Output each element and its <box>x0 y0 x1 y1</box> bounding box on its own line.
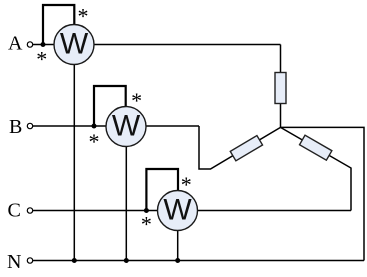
wire star point to N <box>281 127 365 260</box>
svg-text:B: B <box>9 116 22 138</box>
wattmeter W3 <box>158 191 198 231</box>
svg-text:*: * <box>141 212 152 237</box>
wire phase A down to load <box>280 45 282 128</box>
node dot junction A loop <box>41 42 46 47</box>
resistor phase C <box>300 135 332 160</box>
node dot junction C loop <box>144 208 149 213</box>
svg-text:A: A <box>8 32 23 54</box>
terminal B <box>27 123 32 128</box>
terminal C <box>27 208 32 213</box>
loop W3 current coil <box>146 169 178 211</box>
wire phase C to load <box>281 127 352 210</box>
wire line N <box>33 260 364 262</box>
svg-text:*: * <box>78 4 89 29</box>
svg-text:*: * <box>89 129 100 154</box>
wire line A <box>33 44 281 46</box>
wire phase B to load <box>199 126 281 169</box>
terminal N <box>27 258 32 263</box>
wire W3 voltage coil to N <box>177 211 179 261</box>
wire W1 voltage coil to N <box>73 45 75 261</box>
wire line C <box>33 210 351 212</box>
svg-text:*: * <box>131 88 142 113</box>
svg-text:*: * <box>181 172 192 197</box>
svg-text:*: * <box>36 46 47 71</box>
wire W2 voltage coil to N <box>125 126 127 261</box>
svg-text:W: W <box>112 110 141 143</box>
wattmeter W1 <box>54 25 94 65</box>
node dot N junction 2 <box>124 258 129 263</box>
svg-text:W: W <box>163 194 192 227</box>
wattmeter W2 <box>106 107 146 147</box>
resistor phase B <box>230 136 262 161</box>
wire line B <box>33 125 199 127</box>
loop W2 current coil <box>94 86 126 126</box>
svg-text:N: N <box>7 251 21 273</box>
loop W1 current coil <box>43 5 74 45</box>
svg-text:W: W <box>60 28 89 61</box>
resistor phase A <box>275 73 286 104</box>
node dot N junction 3 <box>175 258 180 263</box>
node dot junction B loop <box>92 124 97 129</box>
terminal A <box>27 42 32 47</box>
svg-text:C: C <box>8 200 21 222</box>
node dot N junction 1 <box>72 258 77 263</box>
